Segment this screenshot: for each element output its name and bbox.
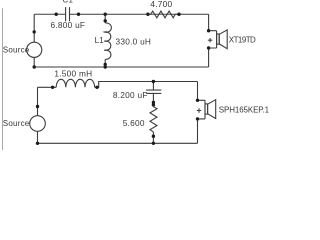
svg-text:330.0 uH: 330.0 uH <box>116 37 152 47</box>
svg-text:5.600: 5.600 <box>123 118 145 128</box>
svg-text:8.200 uF: 8.200 uF <box>113 90 148 100</box>
svg-text:Source: Source <box>3 119 30 128</box>
svg-text:6.800 uF: 6.800 uF <box>51 20 86 30</box>
svg-text:XT19TD: XT19TD <box>229 36 256 45</box>
svg-text:1.500 mH: 1.500 mH <box>54 69 92 79</box>
svg-text:SPH165KEP.1: SPH165KEP.1 <box>219 106 270 115</box>
svg-text:C1: C1 <box>63 0 74 5</box>
svg-text:L1: L1 <box>95 36 105 45</box>
svg-text:4.700: 4.700 <box>150 0 172 9</box>
svg-text:Source: Source <box>3 45 30 54</box>
